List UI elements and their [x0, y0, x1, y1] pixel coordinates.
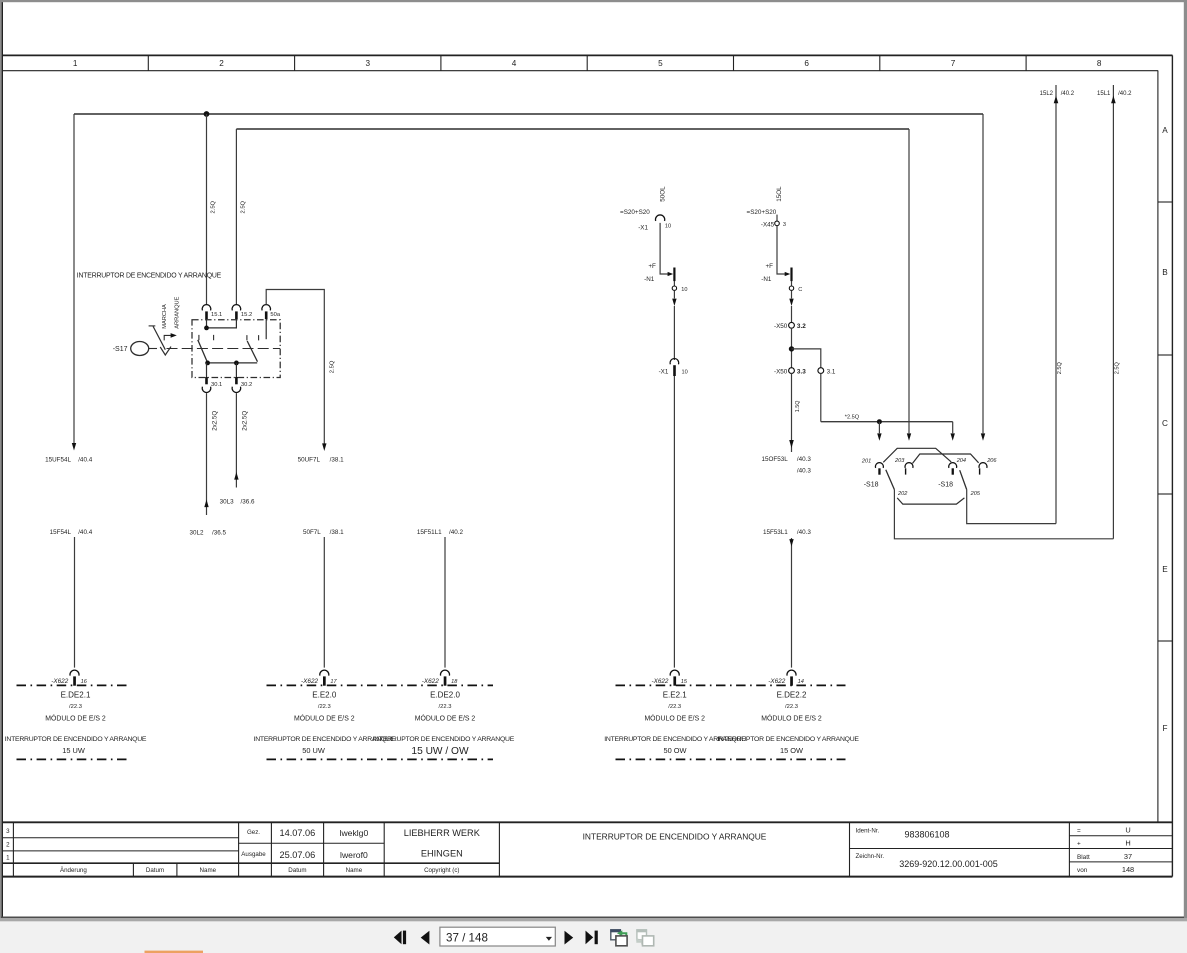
pin 201 clip	[875, 463, 883, 468]
svg-text:/36.6: /36.6	[241, 499, 256, 506]
svg-text:3: 3	[6, 828, 10, 835]
svg-text:/22.3: /22.3	[785, 704, 798, 710]
svg-text:1: 1	[73, 59, 78, 68]
connector X45 circle	[776, 215, 778, 222]
svg-text:E.DE2.2: E.DE2.2	[777, 691, 807, 700]
svg-text:15L2: 15L2	[1040, 91, 1054, 97]
svg-text:+: +	[1077, 841, 1081, 848]
svg-text:-X622: -X622	[51, 678, 68, 685]
pin 30.2	[235, 363, 237, 377]
svg-text:-X622: -X622	[768, 678, 785, 685]
svg-text:/22.3: /22.3	[318, 704, 331, 710]
svg-text:5: 5	[658, 59, 663, 68]
svg-text:/40.3: /40.3	[797, 529, 812, 536]
svg-text:MÓDULO DE E/S 2: MÓDULO DE E/S 2	[294, 714, 355, 723]
svg-text:Ausgabe: Ausgabe	[241, 851, 266, 858]
svg-text:-N1: -N1	[761, 276, 772, 283]
terminal circle 10	[672, 286, 676, 290]
svg-text:983806108: 983806108	[904, 829, 949, 839]
drop to S18 pin 203 from bus 15.2	[908, 129, 910, 433]
blade 204-205	[960, 470, 967, 489]
svg-text:=S20+S20: =S20+S20	[620, 209, 650, 216]
pin 30.1	[206, 363, 208, 377]
switch S17 ignition	[113, 296, 281, 392]
svg-text:INTERRUPTOR DE ENCENDIDO Y ARR: INTERRUPTOR DE ENCENDIDO Y ARRANQUE	[583, 831, 767, 841]
splice X50 pin 3.1	[818, 368, 824, 374]
contact blade right	[247, 341, 257, 362]
svg-text:15F54L: 15F54L	[50, 529, 72, 536]
dash-dot module boundary left group	[17, 684, 128, 686]
letter band left edge	[1157, 71, 1159, 823]
next view icon (disabled)	[636, 929, 653, 946]
page box	[440, 927, 555, 946]
svg-text:C: C	[798, 287, 802, 293]
svg-text:16: 16	[81, 679, 88, 685]
riser 15L2	[1055, 85, 1057, 524]
svg-text:1.5Q: 1.5Q	[795, 401, 801, 413]
svg-text:-X45: -X45	[761, 222, 775, 229]
S18 feed rail	[821, 421, 953, 423]
pin 204 clip	[949, 463, 957, 468]
wire to S17 pin 15.1	[206, 114, 208, 305]
wire 50F7L to connector	[303, 529, 344, 536]
device N1 terminal bar	[790, 268, 792, 282]
svg-text:U: U	[1125, 826, 1130, 835]
svg-text:Name: Name	[200, 867, 217, 874]
wire	[777, 226, 786, 274]
svg-text:148: 148	[1122, 865, 1134, 874]
svg-text:15 UW / OW: 15 UW / OW	[411, 746, 469, 757]
wire 15F51L1 to connector	[417, 529, 464, 536]
splice X50 pin 3.2	[789, 322, 795, 328]
wire bus 15 top horizontal	[74, 113, 983, 115]
svg-text:/38.1: /38.1	[330, 456, 345, 463]
svg-text:30.2: 30.2	[241, 382, 252, 388]
svg-text:17: 17	[330, 679, 337, 685]
svg-text:205: 205	[970, 491, 981, 497]
taskbar orange peek	[145, 951, 204, 953]
actuator dashed link	[167, 348, 281, 350]
fixed contact ticks	[199, 335, 259, 341]
svg-text:E: E	[1162, 565, 1168, 574]
svg-text:Blatt: Blatt	[1077, 854, 1090, 861]
svg-text:/40.3: /40.3	[797, 456, 812, 463]
svg-text:15: 15	[681, 679, 688, 685]
svg-text:201: 201	[861, 459, 871, 465]
svg-text:15.2: 15.2	[241, 312, 252, 318]
svg-text:2.5Q: 2.5Q	[1057, 362, 1063, 375]
wire 50a branch to 50UF7L	[266, 290, 324, 444]
svg-text:lweklg0: lweklg0	[340, 828, 369, 838]
contact blade left	[198, 340, 208, 363]
svg-text:H: H	[1125, 839, 1130, 848]
svg-text:50UF7L: 50UF7L	[298, 456, 321, 463]
column dividers	[147, 55, 149, 70]
wire 15UF54L drop	[73, 114, 75, 443]
node E.E2.0 labels	[254, 691, 396, 756]
svg-text:50 OW: 50 OW	[664, 746, 687, 755]
svg-text:-N1: -N1	[644, 276, 655, 283]
wire to connector E.E2.1	[673, 376, 675, 668]
svg-text:Zeichn-Nr.: Zeichn-Nr.	[856, 853, 885, 860]
branch wire to X50 3.1	[792, 349, 821, 368]
svg-text:50OL: 50OL	[660, 186, 667, 202]
svg-text:-X50: -X50	[774, 368, 788, 375]
coupling bar upper 2	[913, 454, 979, 463]
pin 203 clip	[905, 463, 913, 468]
svg-text:2.5Q: 2.5Q	[1114, 362, 1120, 375]
svg-text:3.1: 3.1	[827, 368, 836, 375]
svg-text:3.2: 3.2	[797, 323, 806, 330]
node junction on bus 15	[204, 111, 210, 117]
blade 201-202	[886, 470, 895, 490]
pin 15.2 clip	[232, 305, 241, 311]
svg-text:15 OW: 15 OW	[780, 746, 803, 755]
drop to S18 pin 204	[952, 422, 954, 434]
svg-text:Datum: Datum	[288, 867, 306, 874]
coupling bar upper 1	[883, 448, 951, 462]
svg-text:50 UW: 50 UW	[302, 746, 325, 755]
wire	[660, 223, 669, 274]
svg-text:/40.3: /40.3	[797, 468, 812, 475]
svg-text:3.3: 3.3	[797, 368, 806, 375]
first/prev buttons	[394, 931, 402, 945]
svg-text:lwerof0: lwerof0	[340, 850, 368, 860]
coupling bar lower	[897, 498, 964, 504]
svg-text:1: 1	[6, 854, 10, 861]
wire to S17 pin 15.2	[235, 129, 237, 305]
svg-text:3: 3	[783, 222, 786, 228]
svg-text:*2.5Q: *2.5Q	[845, 414, 860, 420]
svg-text:202: 202	[897, 491, 908, 497]
wire 15F53L1 to connector	[763, 529, 811, 536]
svg-text:15F53L1: 15F53L1	[763, 529, 788, 536]
svg-text:37 / 148: 37 / 148	[446, 932, 488, 945]
switch S18 start contacts	[861, 448, 998, 504]
svg-text:-S18: -S18	[864, 482, 879, 489]
node E.E2.1 labels	[604, 691, 746, 756]
svg-text:4: 4	[512, 59, 517, 68]
svg-text:/38.1: /38.1	[330, 529, 345, 536]
svg-text:30L2: 30L2	[189, 529, 204, 536]
svg-text:Gez.: Gez.	[247, 829, 260, 836]
top band thick line	[2, 54, 1173, 56]
svg-text:/40.4: /40.4	[78, 456, 93, 463]
svg-text:C: C	[1162, 419, 1168, 428]
splice X50 pin 3.3	[789, 368, 795, 374]
svg-text:15OL: 15OL	[776, 186, 783, 202]
wire 15F54L to connector	[50, 529, 93, 536]
svg-text:=S20+S20: =S20+S20	[747, 209, 777, 216]
svg-text:INTERRUPTOR DE ENCENDIDO Y ARR: INTERRUPTOR DE ENCENDIDO Y ARRANQUE	[77, 273, 222, 280]
S17 contact box dash-dot	[192, 320, 280, 378]
previous view icon	[610, 929, 627, 946]
dash-dot module boundary right group	[616, 684, 846, 686]
svg-text:INTERRUPTOR DE ENCENDIDO Y ARR: INTERRUPTOR DE ENCENDIDO Y ARRANQUE	[373, 736, 515, 743]
connector X1 pin 10 arc	[656, 215, 665, 221]
svg-text:MÓDULO DE E/S 2: MÓDULO DE E/S 2	[761, 714, 822, 723]
connector X622 pin 16	[51, 670, 87, 686]
svg-text:2: 2	[219, 59, 224, 68]
svg-text:50a: 50a	[270, 312, 280, 318]
riser 15L1	[1112, 85, 1114, 539]
svg-text:15OF53L: 15OF53L	[762, 456, 789, 463]
svg-text:/22.3: /22.3	[668, 704, 681, 710]
svg-text:E.E2.1: E.E2.1	[663, 691, 688, 700]
drop to S18 pin 206 from bus 15	[982, 114, 984, 433]
connector X622 pin 18	[422, 670, 458, 686]
pin 206 clip	[979, 463, 987, 468]
svg-text:/36.5: /36.5	[212, 529, 227, 536]
svg-text:E.E2.0: E.E2.0	[312, 691, 337, 700]
next/last buttons	[565, 931, 574, 945]
svg-text:-S18: -S18	[938, 482, 953, 489]
svg-text:10: 10	[665, 224, 671, 230]
wire 30L2 from pin 30.1	[206, 393, 208, 515]
svg-text:/22.3: /22.3	[439, 704, 452, 710]
svg-text:=: =	[1077, 827, 1081, 834]
svg-text:A: A	[1162, 126, 1168, 135]
svg-text:MÓDULO DE E/S 2: MÓDULO DE E/S 2	[45, 714, 106, 723]
svg-text:-S17: -S17	[113, 346, 128, 353]
S18 designators	[864, 482, 953, 489]
svg-text:10: 10	[681, 287, 687, 293]
svg-text:E.DE2.1: E.DE2.1	[61, 691, 91, 700]
wire to splice X50.3.2	[791, 306, 793, 323]
svg-text:-X50: -X50	[774, 323, 788, 330]
junction node	[789, 346, 794, 351]
svg-text:F: F	[1162, 724, 1167, 733]
internal link 15.1-15.2	[207, 319, 237, 328]
svg-text:203: 203	[894, 458, 905, 464]
wire between splices	[791, 328, 793, 368]
svg-text:-X1: -X1	[638, 224, 648, 231]
pin 50a clip	[262, 305, 271, 311]
junction node on rail	[877, 419, 882, 424]
letter band dividers	[1158, 201, 1173, 203]
svg-text:2.5Q: 2.5Q	[330, 360, 336, 373]
svg-text:2.5Q: 2.5Q	[211, 200, 217, 213]
wire 205 out to 15L2 riser	[967, 490, 1056, 524]
svg-text:Copyright (c): Copyright (c)	[424, 867, 459, 874]
svg-text:/22.3: /22.3	[69, 704, 82, 710]
svg-text:15F51L1: 15F51L1	[417, 529, 442, 536]
svg-text:Änderung: Änderung	[60, 867, 87, 874]
svg-text:/40.4: /40.4	[78, 529, 93, 536]
terminal circle C	[789, 286, 793, 290]
connector X1 pin 10 inline	[670, 359, 679, 365]
svg-text:Name: Name	[346, 867, 363, 874]
wire 15OF53L	[791, 373, 793, 452]
svg-text:von: von	[1077, 867, 1088, 874]
svg-text:18: 18	[451, 679, 458, 685]
wire 202 out to 15L1 riser	[894, 490, 1113, 539]
svg-text:ARRANQUE: ARRANQUE	[175, 296, 181, 328]
wire from X50 3.1 to S18 rail	[820, 373, 822, 422]
dash-dot module boundary centre group	[267, 684, 494, 686]
svg-text:15UF54L: 15UF54L	[45, 456, 71, 463]
connector X622 pin 14	[768, 670, 804, 686]
device N1 terminal bar	[673, 268, 675, 282]
pin labels	[861, 458, 998, 497]
svg-text:15L1: 15L1	[1097, 91, 1111, 97]
node E.DE2.0 labels	[373, 691, 515, 757]
wire 30L3 from pin 30.2	[235, 393, 237, 487]
svg-text:206: 206	[986, 458, 997, 464]
svg-text:14.07.06: 14.07.06	[280, 828, 316, 838]
svg-text:30.1: 30.1	[211, 382, 222, 388]
svg-text:3269-920.12.00.001-005: 3269-920.12.00.001-005	[899, 859, 998, 869]
svg-text:-X622: -X622	[301, 678, 318, 685]
svg-text:204: 204	[956, 458, 966, 464]
svg-text:7: 7	[951, 59, 956, 68]
svg-text:15.1: 15.1	[211, 312, 222, 318]
svg-text:EHINGEN: EHINGEN	[421, 849, 463, 859]
net 15OL feed	[747, 186, 836, 668]
svg-text:14: 14	[798, 679, 804, 685]
svg-text:+F: +F	[765, 263, 773, 270]
flow arrow down	[673, 291, 675, 299]
svg-text:15 UW: 15 UW	[62, 746, 85, 755]
svg-text:-X622: -X622	[422, 678, 439, 685]
svg-text:30L3: 30L3	[220, 499, 235, 506]
svg-text:/40.2: /40.2	[1118, 91, 1132, 97]
svg-text:2.5Q: 2.5Q	[241, 200, 247, 213]
svg-text:INTERRUPTOR DE ENCENDIDO Y ARR: INTERRUPTOR DE ENCENDIDO Y ARRANQUE	[5, 736, 147, 743]
net 50OL feed	[620, 186, 688, 668]
right page border	[1171, 55, 1173, 876]
svg-text:25.07.06: 25.07.06	[280, 850, 316, 860]
svg-text:LIEBHERR WERK: LIEBHERR WERK	[404, 828, 481, 838]
pin 50a inner stub	[265, 319, 267, 339]
svg-text:Datum: Datum	[146, 867, 164, 874]
connector X622 pin 17	[301, 670, 337, 686]
drop to S18 pin 201	[878, 422, 880, 434]
pin 15.1 clip	[202, 305, 211, 311]
svg-text:Ident-Nr.: Ident-Nr.	[856, 827, 880, 834]
lower contact rail	[208, 362, 258, 364]
svg-text:MÓDULO DE E/S 2: MÓDULO DE E/S 2	[644, 714, 705, 723]
node E.DE2.2 labels	[717, 691, 859, 756]
svg-text:2x2.5Q: 2x2.5Q	[212, 411, 219, 431]
svg-text:-X622: -X622	[651, 678, 668, 685]
svg-text:2x2.5Q: 2x2.5Q	[241, 411, 248, 431]
connector X622 pin 15	[651, 670, 687, 686]
svg-text:50F7L: 50F7L	[303, 529, 321, 536]
svg-text:37: 37	[1124, 852, 1132, 861]
svg-text:E.DE2.0: E.DE2.0	[430, 691, 460, 700]
left page border	[1, 2, 3, 917]
svg-text:2: 2	[6, 841, 10, 848]
svg-text:3: 3	[366, 59, 371, 68]
wire down to X1 splice	[673, 306, 675, 360]
svg-text:MARCHA: MARCHA	[162, 304, 168, 329]
svg-text:-X1: -X1	[659, 368, 669, 375]
svg-text:10: 10	[682, 369, 688, 375]
svg-text:B: B	[1162, 268, 1168, 277]
svg-text:/40.2: /40.2	[1061, 91, 1075, 97]
svg-text:MÓDULO DE E/S 2: MÓDULO DE E/S 2	[415, 714, 476, 723]
wire bus 15.2 horizontal	[236, 128, 909, 130]
top band bottom line	[2, 70, 1158, 72]
svg-text:INTERRUPTOR DE ENCENDIDO Y ARR: INTERRUPTOR DE ENCENDIDO Y ARRANQUE	[717, 736, 859, 743]
svg-text:/40.2: /40.2	[449, 529, 464, 536]
node E.DE2.1 labels	[5, 691, 147, 756]
flow arrow down	[791, 291, 793, 299]
svg-text:+F: +F	[648, 263, 656, 270]
svg-text:8: 8	[1097, 59, 1102, 68]
svg-text:6: 6	[804, 59, 809, 68]
